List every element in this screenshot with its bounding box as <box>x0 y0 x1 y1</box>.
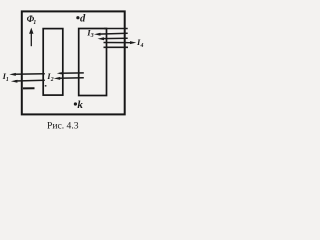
flux arrow Φ1 <box>29 28 33 47</box>
core outer outline <box>22 11 125 114</box>
winding W3 turn 2 with current arrow I3 <box>94 33 128 36</box>
winding W3 turn 5 (right limb) <box>104 46 129 48</box>
node k <box>74 102 77 105</box>
winding W2 turn 2 with current arrow I2 (middle limb) <box>54 77 84 80</box>
winding W1 turn 2 with arrow (left limb) <box>11 80 45 83</box>
left window of core <box>43 29 63 96</box>
stray winding mark on left limb <box>23 87 35 89</box>
svg-text:3: 3 <box>90 33 94 39</box>
svg-text:1: 1 <box>33 20 36 26</box>
winding W3 turn 4 with current arrow I4 <box>104 41 137 44</box>
svg-text:2: 2 <box>50 77 54 83</box>
svg-text:Рис. 4.3: Рис. 4.3 <box>47 121 79 132</box>
svg-text:k: k <box>77 99 83 111</box>
node d <box>76 16 79 19</box>
winding W3 turn 3 with second arrow I3 <box>98 37 128 40</box>
svg-text:1: 1 <box>6 77 9 83</box>
winding W1 turn 1 with current arrow I1 (left limb) <box>9 73 45 76</box>
svg-text:4: 4 <box>140 43 144 49</box>
stray speck <box>45 85 47 87</box>
svg-text:d: d <box>80 14 86 25</box>
right window of core <box>79 29 107 96</box>
winding W2 turn 1 (middle limb) <box>57 72 84 74</box>
winding W3 turn 1 (right limb) <box>104 28 128 30</box>
